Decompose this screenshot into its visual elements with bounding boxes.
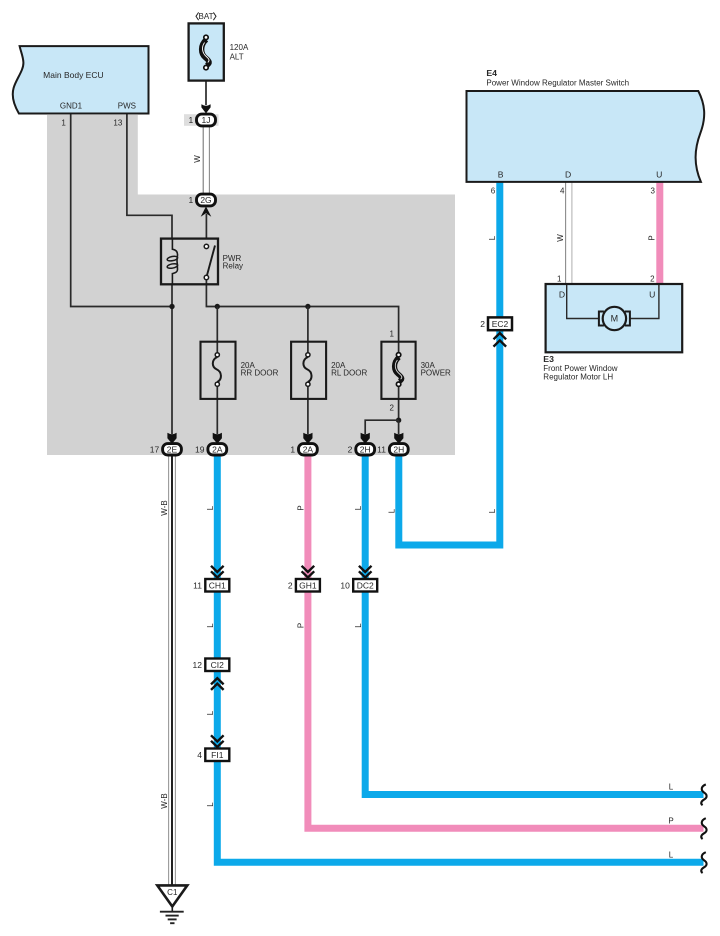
fuse 30A POWER fusible link body — [395, 357, 402, 381]
arrow into 2H(2) — [361, 433, 370, 444]
svg-text:2: 2 — [348, 445, 353, 455]
svg-text:ALT: ALT — [230, 53, 244, 62]
connector 2A(1) oval — [299, 444, 318, 455]
svg-text:1: 1 — [188, 195, 193, 205]
svg-text:M: M — [611, 314, 619, 324]
wire W white E4 pin D to E3 line2 — [571, 182, 573, 284]
connector EC2 box — [488, 317, 512, 330]
svg-text:POWER: POWER — [421, 368, 451, 377]
wire fuse ALT to 1J — [205, 81, 207, 105]
svg-text:W-B: W-B — [160, 500, 169, 515]
fuse 120A ALT bottom circle — [204, 65, 208, 69]
wire W white E4 pin D to E3 line1 — [565, 182, 567, 284]
E3 inner wire D side — [567, 285, 599, 319]
svg-text:GND1: GND1 — [60, 102, 83, 111]
fuse 120A ALT highlight — [202, 43, 209, 63]
svg-text:11: 11 — [193, 580, 202, 590]
relay PWR box — [161, 239, 218, 285]
chevron down into DC2 — [359, 566, 372, 578]
fuse 20A RR DOOR bottom circle — [215, 382, 219, 386]
svg-text:L: L — [669, 850, 674, 859]
svg-text:Main Body ECU: Main Body ECU — [43, 70, 103, 80]
svg-text:1: 1 — [390, 330, 395, 339]
wire GND1 from ECU to junction — [71, 113, 172, 307]
relay coil wire and brace curve — [172, 239, 177, 285]
svg-text:L: L — [488, 235, 497, 240]
fuse 20A RL DOOR top circle — [306, 353, 310, 357]
wire relay coil to ground junction then 2E — [171, 284, 173, 434]
svg-text:10: 10 — [340, 580, 350, 590]
svg-text:W: W — [193, 155, 202, 163]
svg-text:4: 4 — [560, 187, 565, 196]
wire PWS from ECU to relay coil — [127, 113, 172, 239]
connector 2E oval — [163, 444, 182, 455]
svg-text:1: 1 — [188, 115, 193, 125]
svg-text:Regulator Motor LH: Regulator Motor LH — [543, 372, 613, 381]
arrow into 1J — [201, 104, 210, 113]
chevron down into GH1 — [302, 566, 315, 578]
svg-text:E4: E4 — [486, 68, 497, 78]
svg-text:2: 2 — [480, 319, 485, 329]
connector DC2 box — [353, 579, 377, 592]
connector 1J gray band — [184, 114, 219, 126]
wire P pink from 2A(1) to GH1 — [304, 455, 311, 581]
wire L blue CI2 to FI1 — [214, 670, 221, 750]
svg-text:L: L — [354, 623, 363, 628]
fuse 20A RL DOOR element — [303, 357, 311, 382]
svg-text:CH1: CH1 — [209, 580, 226, 590]
continuation squiggle pink P right y=827 — [701, 818, 706, 839]
svg-text:E3: E3 — [543, 354, 554, 364]
fuse 20A RL DOOR box — [291, 342, 326, 399]
junction dot D — [396, 418, 401, 423]
wire P pink E4 pin U to E3 — [656, 182, 663, 284]
arrow into 2A(19) — [213, 433, 222, 444]
wire branch to 2H pin2 — [365, 420, 398, 434]
fuse 120A ALT top circle — [204, 35, 208, 39]
svg-text:6: 6 — [491, 187, 496, 196]
svg-text:FI1: FI1 — [211, 750, 224, 760]
relay coil loop 1 — [167, 256, 178, 262]
ground stem — [171, 907, 173, 912]
svg-text:C1: C1 — [167, 888, 178, 897]
wire relay switch to bus and POWER fuse — [206, 279, 398, 355]
svg-text:L: L — [206, 505, 215, 510]
wire W-B 2E to ground C1 line2 — [174, 455, 176, 886]
wire L blue DC2 to right edge — [365, 591, 703, 795]
svg-text:13: 13 — [113, 119, 122, 128]
fuse 20A RR DOOR box — [201, 342, 236, 399]
motor circle M — [603, 307, 626, 330]
svg-text:19: 19 — [195, 445, 205, 455]
svg-text:W: W — [556, 234, 565, 242]
relay coil loop 2 — [167, 263, 178, 269]
motor left brush — [599, 312, 604, 326]
svg-text:L: L — [354, 505, 363, 510]
svg-text:P: P — [297, 505, 306, 510]
svg-text:B: B — [498, 169, 504, 179]
wire W-B 2E to ground C1 line1 — [168, 455, 170, 886]
svg-text:2H: 2H — [360, 445, 371, 455]
relay switch blade — [207, 246, 215, 276]
connector 2A(19) oval — [208, 444, 227, 455]
svg-text:17: 17 — [150, 445, 160, 455]
svg-text:BAT: BAT — [199, 12, 214, 21]
chevron up below CI2 — [211, 678, 224, 690]
wire RR DOOR fuse to 2A — [216, 384, 218, 434]
ECU E4 box — [467, 91, 705, 182]
motor right brush — [625, 312, 630, 326]
wire W 1J to 2G line1 — [202, 126, 204, 195]
svg-text:Relay: Relay — [223, 261, 243, 270]
fuse 20A RR DOOR top circle — [215, 353, 219, 357]
junction dot A — [169, 304, 174, 309]
svg-text:PWS: PWS — [118, 102, 136, 111]
svg-text:P: P — [648, 235, 657, 240]
svg-text:2H: 2H — [393, 445, 404, 455]
fuse 20A RR DOOR element — [213, 357, 221, 382]
arrow into 2E — [167, 433, 176, 444]
svg-text:GH1: GH1 — [299, 580, 317, 590]
motor E3 box — [546, 284, 683, 352]
svg-text:L: L — [669, 783, 674, 792]
svg-text:CI2: CI2 — [211, 660, 225, 670]
svg-text:U: U — [656, 169, 662, 179]
arrow up out of 2G — [201, 206, 212, 216]
ground bar 4 — [170, 922, 174, 924]
E3 inner wire U side — [630, 285, 659, 319]
junction dot B — [215, 304, 220, 309]
svg-text:2E: 2E — [167, 445, 178, 455]
svg-text:2: 2 — [288, 580, 293, 590]
svg-text:4: 4 — [197, 750, 202, 760]
svg-text:11: 11 — [377, 445, 386, 455]
wire P pink GH1 to right edge — [308, 591, 704, 829]
connector FI1 box — [205, 749, 229, 762]
wire L blue from 2A(19) to CH1 — [214, 455, 221, 581]
svg-text:U: U — [649, 290, 655, 300]
svg-text:L: L — [488, 508, 497, 513]
fuse 30A POWER highlight — [395, 360, 402, 379]
wire W-B 2E to ground C1 stripe — [171, 455, 173, 886]
ground bar 1 — [160, 911, 184, 913]
fuse 120A ALT box — [189, 23, 224, 80]
continuation squiggle blue L right y=793 — [701, 784, 706, 805]
ground C1 triangle — [157, 885, 187, 906]
wire bus to RL DOOR fuse — [307, 307, 309, 356]
svg-text:RR DOOR: RR DOOR — [241, 368, 279, 377]
wire L blue CH1 to CI2 — [214, 591, 221, 660]
connector 1J oval — [197, 114, 216, 126]
arrow into 2H(11) — [394, 433, 403, 444]
ground bar 2 — [166, 915, 179, 917]
fuse 30A POWER bottom circle — [396, 382, 400, 386]
fuse 120A ALT fusible link body — [202, 40, 210, 66]
connector 2H(11) oval — [389, 444, 408, 455]
connector 2G oval — [197, 194, 216, 206]
svg-text:1: 1 — [61, 119, 66, 128]
svg-text:P: P — [668, 816, 673, 825]
svg-text:1: 1 — [290, 445, 295, 455]
connector GH1 box — [296, 579, 320, 592]
wire L blue from 2H(2) to DC2 — [362, 455, 369, 581]
ground bar 3 — [168, 918, 177, 920]
connector 2H(2) oval — [356, 444, 375, 455]
wire 2G to relay switch — [205, 214, 207, 239]
wire L blue E4 pin B through EC2 to 2H(11) — [399, 182, 500, 545]
chevron down into CH1 — [211, 566, 224, 578]
gray harness zone main — [47, 195, 455, 456]
svg-text:1: 1 — [557, 275, 562, 284]
svg-text:RL DOOR: RL DOOR — [331, 368, 367, 377]
svg-text:EC2: EC2 — [492, 319, 509, 329]
relay switch top contact — [204, 244, 208, 248]
svg-text:DC2: DC2 — [357, 580, 374, 590]
wire W 1J to 2G line2 — [208, 126, 210, 195]
fuse 30A POWER top circle — [396, 353, 400, 357]
svg-text:Power Window Regulator Master: Power Window Regulator Master Switch — [486, 79, 629, 88]
gray harness zone upper column — [47, 115, 138, 196]
junction dot C — [305, 304, 310, 309]
svg-text:3: 3 — [651, 187, 656, 196]
connector CH1 box — [205, 579, 229, 592]
svg-text:L: L — [206, 710, 215, 715]
svg-text:1J: 1J — [202, 115, 211, 125]
wire RL DOOR fuse to 2A — [307, 384, 309, 434]
chevron down into FI1 — [211, 735, 224, 747]
connector CI2 box — [205, 659, 229, 672]
svg-text:2G: 2G — [200, 195, 211, 205]
svg-text:2: 2 — [390, 404, 395, 413]
svg-text:120A: 120A — [230, 43, 249, 52]
wire branch to 2H pin11 — [398, 420, 400, 434]
continuation squiggle blue L right y=862 — [701, 852, 706, 873]
wire bus to RR DOOR fuse — [216, 307, 218, 356]
wire POWER fuse to junction — [398, 384, 400, 420]
svg-text:L: L — [387, 508, 396, 513]
chevron up below EC2 — [494, 333, 507, 347]
svg-text:L: L — [206, 802, 215, 807]
wire L blue FI1 to right edge — [217, 760, 703, 862]
Main Body ECU box — [13, 46, 149, 113]
svg-text:P: P — [297, 623, 306, 628]
svg-text:L: L — [206, 623, 215, 628]
relay switch bottom contact — [204, 275, 208, 279]
svg-text:2: 2 — [650, 275, 655, 284]
svg-text:12: 12 — [193, 660, 203, 670]
svg-text:D: D — [559, 290, 565, 300]
svg-text:2A: 2A — [303, 445, 314, 455]
fuse 30A POWER box — [381, 342, 415, 399]
arrow into 2A(1) — [303, 433, 312, 444]
svg-text:W-B: W-B — [160, 793, 169, 808]
svg-text:2A: 2A — [212, 445, 223, 455]
svg-text:D: D — [565, 169, 571, 179]
fuse 20A RL DOOR bottom circle — [306, 382, 310, 386]
